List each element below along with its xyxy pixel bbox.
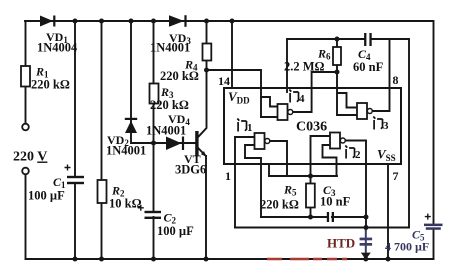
gate U1B door3 [357, 103, 372, 119]
label door3 [373, 117, 382, 130]
gate U1D door2 [330, 133, 345, 149]
svg-text:10 nF: 10 nF [320, 195, 351, 209]
resistor R6 [333, 47, 341, 65]
wire collector [199, 70, 207, 137]
svg-text:1N4001: 1N4001 [146, 124, 186, 138]
wire lower terminal to bottom rail [25, 174, 27, 259]
terminal lower 220V [22, 168, 29, 175]
wire VD2 to base node [131, 121, 196, 143]
svg-text:C036: C036 [296, 120, 327, 135]
svg-text:220 kΩ: 220 kΩ [260, 198, 299, 212]
transistor Q1 VT [195, 131, 206, 157]
resistor R2 [98, 180, 107, 203]
gate U1C door1 [255, 133, 270, 149]
capacitor C3 [327, 212, 334, 222]
svg-text:100 µF: 100 µF [157, 224, 194, 238]
wire R6 top [336, 39, 338, 47]
wire C4 right down to bottom node [408, 39, 410, 228]
svg-text:60 nF: 60 nF [353, 60, 384, 74]
svg-text:220 kΩ: 220 kΩ [160, 69, 199, 83]
svg-text:4 700 µF: 4 700 µF [385, 240, 429, 254]
wire left drop to R1 [25, 21, 27, 66]
svg-text:1: 1 [247, 122, 253, 134]
svg-text:1N4001: 1N4001 [106, 144, 146, 158]
svg-text:220 kΩ: 220 kΩ [150, 98, 189, 112]
svg-text:8: 8 [393, 73, 399, 87]
wire R5 top node [269, 175, 337, 177]
wire top VDD rail [25, 21, 434, 224]
svg-text:2: 2 [355, 149, 361, 161]
wire R5 bottom [310, 208, 312, 218]
IC U1 C036 outline [224, 88, 401, 164]
capacitor C5 [424, 214, 443, 230]
label door1 [237, 119, 246, 132]
node junction dots [73, 19, 391, 262]
svg-text:1: 1 [225, 169, 231, 183]
wire R6 bottom to gate3 inputs [337, 72, 357, 115]
resistor R4 [203, 44, 212, 61]
svg-text:1N4001: 1N4001 [150, 41, 190, 55]
wire gate4 inputs [261, 97, 278, 117]
wire gate1 upper input to pin 1 [235, 137, 255, 228]
wire gate2 upper input through R5 [311, 136, 331, 184]
svg-text:3: 3 [383, 120, 389, 132]
resistor R3 [150, 84, 159, 104]
wire pin1 bottom line [235, 227, 409, 229]
diode VD2 [125, 118, 137, 133]
wire VD2 branch [130, 21, 132, 118]
wire C2 to bottom rail [153, 217, 155, 259]
diode VD3 [169, 15, 187, 27]
wire C3 line [261, 216, 366, 218]
svg-text:100 µF: 100 µF [28, 189, 65, 203]
diode VD1 [40, 16, 55, 27]
svg-text:1N4004: 1N4004 [37, 41, 78, 55]
wire C5 bottom [433, 230, 435, 259]
diode VD4 [166, 137, 184, 151]
wire pin 14 [231, 21, 233, 88]
svg-text:220 V: 220 V [13, 150, 47, 165]
wire R2 branch bottom [101, 203, 103, 259]
capacitor C1 [65, 165, 85, 185]
wire collector node to gate4 input [207, 70, 262, 117]
svg-text:220 kΩ: 220 kΩ [31, 78, 70, 92]
wire gate4 output to R6 bottom [293, 72, 337, 112]
svg-text:10 kΩ: 10 kΩ [109, 197, 142, 211]
terminal upper 220V [22, 124, 29, 131]
label door2 [345, 146, 354, 159]
wire R6 bottom [336, 65, 338, 72]
wire R6 C4 top line [287, 38, 409, 40]
svg-text:2.2 MΩ: 2.2 MΩ [284, 60, 325, 74]
wire gate1 lower input loop [245, 145, 261, 217]
svg-text:3DG6: 3DG6 [175, 163, 206, 177]
svg-text:7: 7 [393, 169, 399, 183]
wire gate2 output to HTD node [345, 141, 366, 228]
svg-text:4: 4 [299, 93, 305, 105]
resistor R1 [21, 66, 30, 87]
wire gate1 output [270, 141, 287, 176]
wire R4 branch top [206, 21, 208, 44]
wire pin 7 [387, 164, 389, 259]
wire C1 branch top [74, 21, 76, 176]
wire C4 left stub down [286, 39, 288, 92]
svg-text:HTD: HTD [327, 236, 355, 251]
wire emitter to bottom rail [199, 149, 206, 260]
red dashed segment on bottom rail [267, 258, 347, 261]
HTD buzzer symbol [360, 228, 373, 254]
wire C1 branch bottom [74, 184, 76, 259]
wire R4 bottom to collector node [206, 61, 208, 71]
capacitor C2 [138, 205, 161, 219]
svg-text:14: 14 [218, 74, 230, 88]
gate U1A door4 [278, 104, 293, 120]
label door4 [289, 90, 298, 103]
wire node A to C2 [153, 143, 155, 211]
wire R1 to terminal [25, 87, 27, 124]
wire R3 branch top [153, 21, 155, 84]
capacitor C4 [364, 33, 372, 46]
wire bottom ground rail [26, 258, 434, 260]
resistor R5 [306, 184, 315, 208]
wire stub gate1 out to R5 node [268, 164, 270, 176]
wire R3 to node A [153, 104, 155, 144]
wire R2 branch top [101, 21, 103, 180]
wire gate3 output to pin 8 [372, 39, 389, 111]
wire gate2 lower input loop [323, 145, 337, 176]
